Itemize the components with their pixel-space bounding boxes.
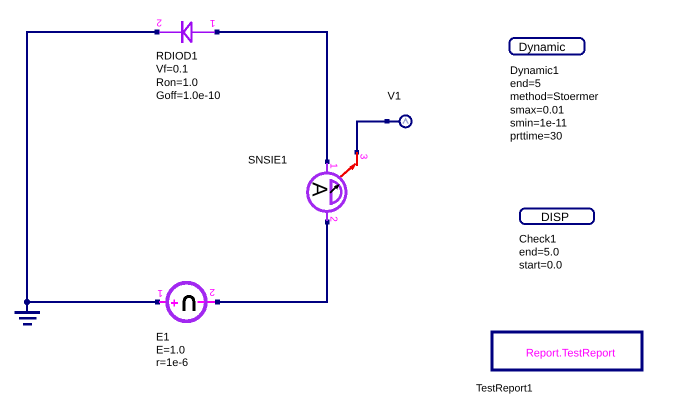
svg-text:prttime=30: prttime=30 — [510, 131, 562, 143]
svg-text:method=Stoermer: method=Stoermer — [510, 91, 599, 103]
svg-text:smin=1e-11: smin=1e-11 — [510, 117, 567, 129]
svg-text:Dynamic1: Dynamic1 — [510, 65, 559, 77]
ground — [15, 299, 40, 326]
Dynamic block — [510, 38, 585, 55]
wire: sensor pin 1 stub — [326, 163, 328, 172]
svg-text:smax=0.01: smax=0.01 — [510, 104, 564, 116]
wire: right vertical upper (to sensor pin 1) — [326, 31, 328, 161]
svg-text:1: 1 — [157, 287, 163, 298]
wire: V1 branch (junction 3 up and right to terminal) — [357, 121, 400, 151]
junction: node 3 (sensor output) — [355, 150, 360, 155]
svg-text:1: 1 — [209, 17, 215, 28]
red arrowhead — [349, 163, 357, 171]
svg-text:Vf=0.1: Vf=0.1 — [156, 64, 188, 76]
wire: left vertical — [26, 31, 28, 302]
diode cathode bar — [181, 21, 183, 43]
wire: E1 pin 2 stub — [206, 301, 215, 303]
wire: diode pin 1 stub — [193, 31, 216, 33]
svg-text:SNSIE1: SNSIE1 — [248, 155, 287, 167]
wire: top horizontal left segment — [26, 31, 158, 33]
junction: sensor pin 1 — [325, 159, 330, 164]
svg-text:TestReport1: TestReport1 — [476, 383, 533, 395]
wire: right vertical lower (sensor pin 2 to bottom corner) — [326, 222, 328, 303]
svg-text:end=5: end=5 — [510, 78, 541, 90]
svg-text:2: 2 — [209, 286, 215, 297]
wire: diode pin 2 stub — [159, 31, 181, 33]
svg-text:Dynamic: Dynamic — [519, 40, 566, 54]
wire: red diagonal — [341, 164, 356, 177]
wire: bottom horizontal right segment — [218, 301, 329, 303]
svg-text:3: 3 — [357, 154, 368, 160]
terminal V1 — [400, 115, 412, 127]
wire: sensor pin 2 stub — [326, 213, 328, 222]
svg-text:Ron=1.0: Ron=1.0 — [156, 77, 198, 89]
red sensor output arrow — [341, 152, 357, 177]
source E1 — [159, 283, 215, 322]
wire: bottom horizontal left segment — [26, 301, 158, 303]
junction: diode pin 2 — [155, 30, 160, 35]
wire: top horizontal right segment — [217, 31, 328, 33]
junction: diode pin 1 — [215, 30, 220, 35]
svg-text:Goff=1.0e-10: Goff=1.0e-10 — [156, 90, 220, 102]
diode triangle — [184, 22, 192, 42]
svg-text:Report.TestReport: Report.TestReport — [526, 348, 615, 360]
svg-text:end=5.0: end=5.0 — [519, 247, 559, 259]
E1 minus sign — [198, 301, 205, 303]
junction: V1 pin — [385, 119, 390, 124]
wire: red vertical to node 3 — [356, 152, 358, 166]
svg-text:E=1.0: E=1.0 — [156, 345, 185, 357]
sensor body circle — [308, 173, 346, 211]
Report.TestReport block — [492, 332, 642, 370]
junction: E1 pin 2 — [215, 300, 220, 305]
E1 body circle — [167, 283, 206, 322]
E1 cap symbol — [184, 296, 194, 310]
junction: E1 pin 1 — [155, 300, 160, 305]
svg-text:DISP: DISP — [541, 210, 569, 224]
junction: sensor pin 2 — [325, 220, 330, 225]
wire: E1 pin 1 stub — [159, 301, 168, 303]
svg-text:2: 2 — [327, 216, 338, 222]
sensor needle — [330, 188, 335, 193]
svg-text:RDIOD1: RDIOD1 — [156, 51, 198, 63]
sensor SNSIE1 — [307, 163, 346, 221]
svg-text:1: 1 — [328, 163, 339, 169]
svg-text:Check1: Check1 — [519, 234, 556, 246]
svg-text:A: A — [307, 182, 331, 197]
svg-text:E1: E1 — [156, 332, 169, 344]
svg-text:r=1e-6: r=1e-6 — [156, 357, 188, 369]
svg-text:V1: V1 — [388, 90, 401, 102]
svg-text:start=0.0: start=0.0 — [519, 260, 562, 272]
DISP block — [520, 209, 594, 225]
E1 plus sign — [171, 300, 178, 307]
svg-text:2: 2 — [156, 17, 162, 28]
diode RDIOD1 — [159, 21, 215, 43]
sensor dial (D shape) — [331, 179, 341, 205]
